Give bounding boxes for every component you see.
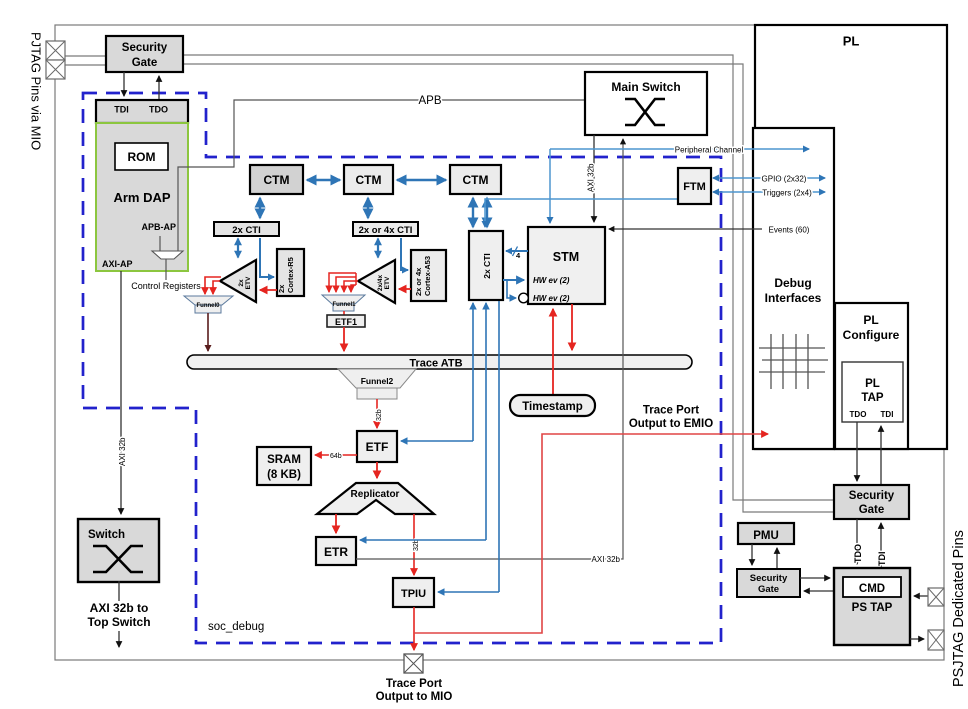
label: AXI 32b to Top Switch: [87, 601, 150, 629]
wire: PS TAP to security gate arrow: [804, 590, 834, 592]
wire: GPIO (2x32) double arrow: [713, 175, 825, 184]
svg-text:Switch: Switch: [88, 529, 125, 541]
wire: ETR AXI 32b to Main Switch: [356, 139, 623, 564]
svg-text:TAP: TAP: [861, 392, 883, 404]
CTM box 2: [344, 165, 393, 194]
wire: STM trace down to ATB (red): [571, 304, 573, 350]
svg-text:FTM: FTM: [683, 181, 706, 193]
node: PJTAG pin pad 2: [46, 60, 65, 79]
svg-text:Gate: Gate: [132, 57, 158, 69]
APB wire from DAP mux to Main Switch: [178, 100, 585, 251]
svg-text:CMD: CMD: [859, 583, 885, 595]
svg-text:Trace Port: Trace Port: [643, 405, 699, 417]
debug interfaces grid icon: [759, 334, 828, 389]
svg-text:Top Switch: Top Switch: [87, 615, 150, 629]
svg-text:AXI 32b to: AXI 32b to: [90, 601, 149, 615]
TPIU box: [393, 578, 434, 607]
svg-text:ETF: ETF: [366, 440, 389, 454]
svg-text:TDI: TDI: [877, 552, 887, 567]
svg-text:32b: 32b: [413, 539, 420, 551]
wire: PL TAP TDO down to security gate: [856, 422, 858, 481]
svg-text:Interfaces: Interfaces: [765, 291, 822, 305]
2x CTI box (R5 cluster): [214, 222, 279, 236]
wire: 2x CTI to STM HW ev arrow: [503, 279, 524, 281]
wire: blue ETR arrow: [360, 539, 486, 541]
wire: AXI-AP down to Switch: [120, 271, 122, 514]
wire: PJTAG pin to security gate line 1: [65, 55, 106, 57]
svg-text:TDO: TDO: [853, 544, 863, 563]
funnel F0: [184, 296, 233, 313]
wire: CTM3 to 2x CTI vertical double arrow a: [472, 198, 474, 227]
svg-text:Security: Security: [750, 573, 788, 584]
wire: blue vertical ETF to 2x CTI: [472, 303, 474, 441]
debug interfaces box: [753, 128, 834, 449]
label: Control Registers: [131, 281, 201, 291]
wire: ETF1 to Trace ATB (red): [343, 327, 345, 351]
wire: PJTAG pin to security gate line 2: [65, 64, 106, 66]
ROM box: [115, 143, 168, 170]
timestamp box: [510, 395, 595, 416]
wire: FTM to 2x CTI (blue): [485, 199, 678, 227]
svg-text:HW ev (2): HW ev (2): [533, 276, 570, 285]
svg-text:SRAM: SRAM: [267, 454, 301, 466]
svg-text:Debug: Debug: [774, 276, 811, 290]
2x or 4x Cortex-A53 box: [411, 250, 446, 301]
wire: Main Switch AXI 32b down to STM: [587, 135, 596, 222]
svg-text:PS TAP: PS TAP: [852, 602, 893, 614]
wire: blue vertical TPIU to 2x CTI: [498, 301, 500, 592]
wire: replicator to TPIU (red) with 32b label: [413, 514, 420, 575]
main switch box: [585, 72, 707, 135]
svg-text:Triggers (2x4): Triggers (2x4): [762, 189, 812, 198]
svg-text:Gate: Gate: [859, 504, 885, 516]
wire: 2x/4x CTI to Cortex-A53 elbow arrow: [401, 238, 408, 270]
security gate (bottom small): [737, 569, 800, 597]
wire: TDO up to security gate: [158, 76, 160, 100]
TDI/TDO header box: [96, 100, 188, 123]
wire: PS TAP to PSJTAG pad arrow: [910, 638, 924, 640]
svg-text:Main Switch: Main Switch: [611, 80, 680, 94]
svg-text:2x CTI: 2x CTI: [232, 225, 261, 236]
svg-text:Arm DAP: Arm DAP: [113, 190, 170, 205]
PS TAP box: [834, 568, 910, 645]
node: PSJTAG pin pad 1: [928, 588, 944, 606]
security gate (top left): [106, 36, 183, 72]
svg-text:Control Registers: Control Registers: [131, 281, 201, 291]
wire: PSJTAG pad to PS TAP arrow: [914, 595, 928, 597]
A53 ETV triangle: [358, 260, 395, 303]
mux under APB-AP: [152, 251, 183, 259]
wire: security gate to PS TAP arrow: [800, 577, 830, 579]
ETF box: [357, 431, 397, 462]
wire: ETF to SRAM (red) 64b: [315, 453, 357, 460]
node: HW ev circle on STM edge: [519, 293, 529, 303]
wire: CTM2 to 2x/4x CTI double arrow: [367, 198, 369, 218]
svg-text:Gate: Gate: [758, 584, 779, 595]
wire: Cortex-R5 trace into ETV (red): [260, 289, 277, 291]
svg-text:Trace ATB: Trace ATB: [409, 358, 462, 370]
wire: Triggers (2x4) double arrow: [713, 189, 825, 198]
svg-text:APB-AP: APB-AP: [141, 222, 176, 232]
svg-text:AXI 32b: AXI 32b: [587, 163, 596, 192]
svg-text:Funnel0: Funnel0: [196, 303, 220, 309]
wire: Funnel1 to ETF1 (red): [343, 311, 345, 315]
svg-text:GPIO (2x32): GPIO (2x32): [762, 175, 807, 184]
switch (bottom left): [78, 519, 159, 582]
label: PSJTAG Dedicated Pins: [951, 530, 967, 687]
svg-text:CTM: CTM: [356, 173, 382, 187]
PL configure box: [835, 303, 908, 449]
svg-text:PL: PL: [863, 313, 878, 327]
PMU box: [738, 523, 794, 544]
svg-text:2x or 4x CTI: 2x or 4x CTI: [359, 225, 413, 236]
svg-text:Output to MIO: Output to MIO: [376, 691, 453, 703]
label: PJTAG Pins via MIO: [29, 32, 44, 150]
svg-text:PL: PL: [865, 378, 880, 390]
STM box: [528, 227, 605, 304]
svg-text:Security: Security: [849, 490, 895, 502]
ETR box: [316, 537, 356, 565]
svg-text:32b: 32b: [376, 409, 383, 421]
svg-text:Security: Security: [122, 42, 168, 54]
Trace ATB bus bar: [187, 355, 692, 370]
wire: blue ETF arrow: [401, 440, 473, 442]
node: Trace Port Output to MIO pad: [404, 654, 423, 673]
svg-text:PJTAG Pins via MIO: PJTAG Pins via MIO: [29, 32, 44, 150]
svg-text:CTM: CTM: [463, 173, 489, 187]
security gate (right): [834, 485, 909, 519]
svg-text:AXI-AP: AXI-AP: [102, 259, 133, 269]
PL TAP box: [842, 362, 903, 422]
wire: blue TPIU arrow: [438, 591, 499, 593]
2x or 4x CTI box (A53 cluster): [353, 222, 418, 236]
ETF1 box: [327, 315, 365, 327]
wire: PMU down to security gate: [751, 544, 753, 565]
wire: switch output arrow down: [118, 581, 120, 647]
wire: APB-AP to mux: [159, 236, 161, 251]
replicator: [317, 483, 434, 514]
wire: CTM1-CTM2 double arrow: [307, 179, 340, 181]
label: Trace Port Output to MIO: [376, 678, 453, 703]
wire: CTM1 to 2x CTI double arrow: [259, 198, 261, 218]
svg-text:Timestamp: Timestamp: [522, 401, 583, 413]
svg-text:AXI 32b: AXI 32b: [118, 437, 127, 466]
wire: STM to 2x CTI arrow with 4 tick: [506, 247, 528, 261]
svg-text:4: 4: [516, 251, 521, 260]
PL box: [755, 25, 947, 449]
wire: TDO security gate to PS TAP: [853, 519, 863, 564]
soc_debug dashed boundary: [83, 93, 721, 643]
svg-text:(8 KB): (8 KB): [267, 469, 301, 481]
svg-text:soc_debug: soc_debug: [208, 621, 264, 633]
svg-text:2x CTI: 2x CTI: [482, 253, 492, 279]
svg-text:STM: STM: [553, 250, 579, 264]
svg-text:Trace Port: Trace Port: [386, 678, 442, 690]
wire: TPIU output down to MIO pad (red): [413, 607, 415, 650]
svg-text:TPIU: TPIU: [401, 588, 426, 600]
funnel F1: [322, 295, 365, 311]
wire: mux to control registers: [165, 259, 167, 280]
svg-text:CTM: CTM: [264, 173, 290, 187]
svg-text:APB: APB: [418, 95, 441, 107]
wire: replicator to ETR (red): [335, 514, 337, 533]
svg-text:PSJTAG Dedicated Pins: PSJTAG Dedicated Pins: [951, 530, 967, 687]
CTM box 1: [250, 165, 303, 194]
svg-text:Replicator: Replicator: [351, 489, 400, 500]
2x Cortex-R5 box: [277, 249, 304, 296]
svg-text:Events (60): Events (60): [769, 226, 810, 235]
wire: CTM3 to 2x CTI vertical double arrow b: [486, 198, 488, 227]
wire: 2x CTI branch to HW ev circle: [507, 281, 516, 298]
wire: 2x CTI to Cortex-R5 elbow arrow: [260, 238, 274, 277]
svg-text:Configure: Configure: [843, 328, 900, 342]
svg-text:TDI: TDI: [114, 105, 129, 115]
svg-text:AXI 32b: AXI 32b: [592, 555, 621, 564]
svg-text:Output to EMIO: Output to EMIO: [629, 418, 713, 430]
wire: Funnel2 to ETF (red) with 32b label: [376, 399, 383, 428]
svg-text:TDO: TDO: [149, 105, 168, 115]
wire: Events (60) into STM: [609, 226, 810, 235]
svg-text:64b: 64b: [330, 453, 342, 460]
svg-text:ETF1: ETF1: [335, 317, 357, 327]
wire: blue down into STM top: [549, 149, 551, 223]
svg-text:2x/4xETV: 2x/4xETV: [377, 274, 391, 291]
funnel F2 under Trace ATB: [338, 369, 416, 399]
svg-text:TDO: TDO: [850, 410, 867, 419]
wire: R5 ETV to Funnel0 red fanout: [205, 277, 221, 294]
wire: 2x CTI to R5 ETV double arrow: [237, 239, 239, 258]
svg-text:Funnel1: Funnel1: [332, 302, 356, 308]
node: PSJTAG pin pad 2: [928, 630, 944, 650]
wire: Timestamp up to STM (red): [552, 309, 554, 395]
R5 ETV triangle: [220, 260, 256, 302]
FTM box: [678, 168, 711, 204]
label: Trace Port Output to EMIO: [629, 405, 713, 431]
wire: TDI PS TAP to security gate: [877, 523, 887, 568]
node: PJTAG pin pad 1: [46, 41, 65, 60]
wire: CTM2-CTM3 double arrow: [397, 179, 446, 181]
wire: Cortex-A53 trace into ETV (red): [399, 288, 411, 290]
wire: Funnel0 to Trace ATB (dark red): [207, 313, 209, 351]
2x CTI vertical box: [469, 231, 503, 300]
wire: TDI into Arm DAP: [123, 72, 125, 96]
wire: ETF to Replicator (red): [376, 462, 378, 478]
svg-text:HW ev (2): HW ev (2): [533, 294, 570, 303]
svg-text:PMU: PMU: [753, 530, 779, 542]
svg-text:Peripheral Channel: Peripheral Channel: [675, 146, 744, 155]
label: APB: [418, 95, 441, 107]
wire: security gate TDI up to PL TAP: [880, 426, 882, 485]
svg-text:ETR: ETR: [324, 545, 348, 559]
label: soc_debug: [208, 621, 264, 633]
CTM box 3: [450, 165, 501, 194]
wire: JTAG chain line 2: [183, 64, 834, 512]
wire: 2x/4x CTI to A53 ETV double arrow: [377, 239, 379, 258]
wire: JTAG chain line 1 (security gate to right security gate): [183, 55, 834, 500]
svg-text:Funnel2: Funnel2: [361, 376, 394, 386]
svg-text:PL: PL: [843, 34, 860, 49]
wire: Peripheral Channel (blue): [550, 146, 809, 155]
wire: Trace Port Output to EMIO (red): [414, 434, 768, 633]
SRAM box: [257, 447, 311, 485]
Arm DAP box U-DAP: [96, 123, 188, 271]
wire: blue vertical ETR to 2x CTI: [485, 303, 487, 540]
label: AXI 32b (rotated, on AXI-AP wire): [118, 437, 127, 466]
svg-text:ROM: ROM: [128, 150, 156, 164]
wire: security gate up to PMU: [776, 548, 778, 569]
svg-text:TDI: TDI: [881, 410, 894, 419]
wire: A53 ETV to Funnel1 red fanout: [329, 273, 358, 292]
